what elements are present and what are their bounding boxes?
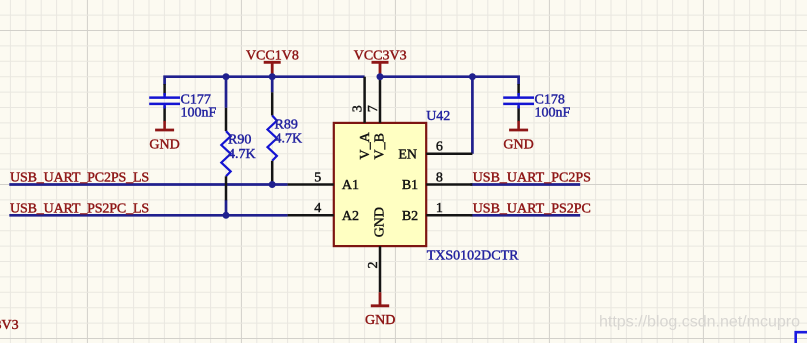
- svg-text:B1: B1: [402, 178, 418, 193]
- resistor R89 4.7K: [268, 92, 303, 184]
- pin 5 A1: [288, 170, 359, 193]
- junction R90 to PS2PC_LS: [223, 212, 230, 219]
- svg-text:USB_UART_PC2PS_LS: USB_UART_PC2PS_LS: [10, 171, 149, 186]
- svg-text:100nF: 100nF: [535, 105, 571, 120]
- junction VCC1V8 power node: [269, 73, 276, 80]
- junction EN node: [469, 73, 476, 80]
- svg-text:https://blog.csdn.net/mcupro: https://blog.csdn.net/mcupro: [599, 314, 800, 331]
- svg-text:A1: A1: [342, 178, 359, 193]
- wire EN to VCC3V3: [471, 77, 474, 154]
- svg-text:GND: GND: [365, 313, 395, 328]
- svg-text:A2: A2: [342, 209, 359, 224]
- wire R90 pullup top: [225, 77, 228, 108]
- power VCC1V8: [246, 48, 299, 76]
- pin 6 EN: [398, 140, 472, 163]
- svg-text:USB_UART_PC2PS: USB_UART_PC2PS: [473, 171, 591, 186]
- wire USB_UART_PC2PS_LS left segment: [9, 183, 287, 186]
- svg-text:VCC3V3: VCC3V3: [354, 48, 407, 63]
- svg-text:USB_UART_PS2PC_LS: USB_UART_PS2PC_LS: [10, 201, 149, 216]
- svg-text:R90: R90: [228, 133, 251, 148]
- svg-text:EN: EN: [398, 147, 417, 162]
- wire sheet corner bottom-right: [796, 332, 807, 343]
- svg-text:GND: GND: [373, 207, 388, 237]
- wire R89 pullup top: [271, 77, 274, 93]
- resistor R90 4.7K: [221, 108, 255, 201]
- svg-text:7: 7: [366, 105, 381, 112]
- ground chip GND: [365, 292, 395, 328]
- svg-text:3V3: 3V3: [0, 318, 19, 333]
- ground C177 GND: [149, 121, 179, 152]
- svg-text:6: 6: [436, 140, 443, 155]
- wire USB_UART_PC2PS right segment: [470, 183, 580, 186]
- pin 2 GND: [366, 207, 387, 292]
- svg-text:B2: B2: [402, 209, 418, 224]
- svg-text:1: 1: [436, 201, 443, 216]
- pin 4 A2: [288, 201, 359, 224]
- op-amp U42 TXS0102DCTR body: [334, 123, 426, 246]
- wire USB_UART_PS2PC_LS left segment: [9, 214, 287, 217]
- svg-text:TXS0102DCTR: TXS0102DCTR: [427, 248, 519, 263]
- svg-text:USB_UART_PS2PC: USB_UART_PS2PC: [473, 201, 591, 216]
- svg-text:4.7K: 4.7K: [228, 147, 256, 162]
- capacitor C178: [503, 84, 570, 122]
- svg-text:8: 8: [436, 170, 443, 185]
- svg-text:GND: GND: [503, 137, 533, 152]
- wire USB_UART_PS2PC right segment: [470, 214, 580, 217]
- svg-text:V_A: V_A: [358, 131, 373, 159]
- power VCC3V3: [354, 48, 407, 76]
- capacitor C177: [149, 84, 216, 122]
- wire VCC3V3 net top: [380, 77, 519, 85]
- svg-text:V_B: V_B: [373, 133, 388, 159]
- wire R90 bottom: [225, 200, 228, 215]
- wire VCC1V8 net top: [165, 77, 365, 85]
- pin 7 V_B: [366, 77, 387, 160]
- svg-text:R89: R89: [275, 117, 298, 132]
- ground C178 GND: [503, 121, 533, 152]
- junction R89 to PC2PS_LS: [269, 181, 276, 188]
- pin 3 V_A: [351, 77, 373, 160]
- junction VCC3V3 power node: [377, 73, 384, 80]
- pin 1 B2: [402, 201, 473, 224]
- svg-text:VCC1V8: VCC1V8: [246, 48, 299, 63]
- svg-text:4.7K: 4.7K: [275, 132, 303, 147]
- svg-text:GND: GND: [149, 137, 179, 152]
- svg-text:2: 2: [366, 262, 381, 269]
- svg-text:4: 4: [314, 201, 321, 216]
- svg-text:3: 3: [351, 105, 366, 112]
- junction VCC1V8/R90 node: [223, 73, 230, 80]
- svg-text:5: 5: [314, 170, 321, 185]
- pin 8 B1: [402, 170, 473, 193]
- svg-text:U42: U42: [426, 109, 450, 124]
- svg-text:100nF: 100nF: [181, 105, 217, 120]
